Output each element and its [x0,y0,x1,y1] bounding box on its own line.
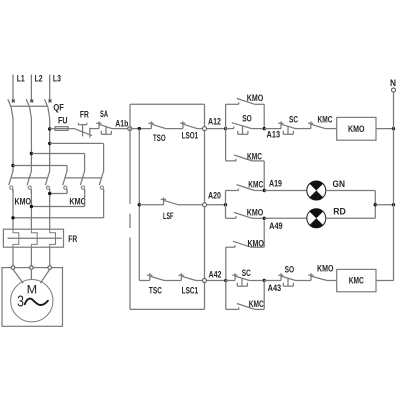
contactor KMC pole 2 [80,171,84,193]
KMC lamp label [248,179,263,189]
KMO self-hold label [247,93,264,103]
SO close label [285,264,295,274]
motor enclosure [2,268,63,327]
wire A20 right [207,204,226,206]
FR heater phase B [31,229,37,247]
node A19 [263,189,266,192]
wire LSO1 to A12 [197,128,202,130]
svg-text:A49: A49 [269,221,283,231]
wire coil KMC to N [376,280,394,282]
node A13 [263,127,266,130]
node junction A12 bus [224,127,227,130]
svg-text:KMC: KMC [249,299,264,309]
wire TSC to LSC1 [164,280,181,282]
svg-text:GN: GN [333,179,346,189]
svg-text:KMO: KMO [348,124,365,134]
wire KMO pole1 out [12,189,14,229]
svg-text:FU: FU [58,115,68,125]
FR heater phase A [13,229,19,247]
wire L3 to fuse [50,128,55,130]
SA label [100,109,108,119]
contactor KMO pole 2 [27,171,31,193]
wire N line [393,92,395,280]
button SO start-open [226,123,252,135]
SC label [289,114,298,124]
A12 label [208,117,221,127]
A13 label [267,130,281,140]
node L3 [50,74,61,101]
svg-text:KMC: KMC [69,197,86,207]
contactor KMC pole 3 [99,171,103,193]
wire KMC pole1 tie [50,189,67,193]
svg-text:SO: SO [285,264,295,274]
svg-text:LSF: LSF [163,211,174,221]
wire RD to join [326,217,376,219]
thermal relay FR box [3,229,63,247]
svg-text:L3: L3 [53,74,61,84]
N label [390,78,396,88]
node junction tie A [11,216,14,219]
wire KMO to A49 [252,217,262,219]
contactor KMO pole 1 [9,171,13,193]
motor terminal W [48,266,52,270]
TSC label [149,286,162,296]
svg-text:3: 3 [17,293,24,310]
svg-text:A42: A42 [209,269,222,279]
button SC stop-close [278,121,295,134]
node L1 [13,74,25,101]
GN label [333,179,346,189]
node junction L3 feed [48,142,51,145]
wire coil KMO to N [376,128,394,130]
svg-text:TSC: TSC [149,286,162,296]
fuse FU [55,127,68,131]
node junction coil-N [392,127,395,130]
KMO linkage bar [11,177,48,179]
KMO close label [247,238,264,248]
svg-text:FR: FR [68,234,77,244]
contact KMO NO lamp [226,212,253,218]
limit switch TSO [149,121,166,128]
node A1b [128,127,132,131]
TSO label [153,133,166,143]
svg-text:QF: QF [53,103,64,113]
KMO lamp label [247,207,264,217]
wire A43 to SO [264,280,281,282]
coil KMO [337,117,376,140]
QF linkage bar [10,105,48,107]
svg-text:KMO: KMO [247,93,264,103]
wire A42 right [207,280,226,282]
KMC close label [249,299,264,309]
KMC branch label [247,151,262,161]
wire KMO pole2 out [30,189,32,229]
A20 label [208,191,221,201]
contactor KMC pole 1 [63,171,67,193]
wire bus to LSF [139,204,163,206]
wire LSF to A20 [178,204,202,206]
node L2 [31,74,42,101]
motor terminal V [30,266,34,270]
lamp GN [307,181,326,200]
KMC label [69,197,86,207]
node A20 [203,203,207,207]
wire terminal U to motor [13,269,23,283]
wire L2 to KMC pole2 [31,154,84,172]
svg-text:RD: RD [333,207,346,217]
button SO stop-open [278,273,295,286]
wire to KMO aux top [226,103,239,105]
switch box right edge [204,104,206,309]
LSF label [163,211,174,221]
SO label [242,113,252,123]
wire open bus [225,104,227,161]
svg-text:L1: L1 [17,74,25,84]
switch box left edge [129,104,131,309]
node junction tie C [48,192,51,195]
node junction L1 feed [11,164,14,167]
svg-text:M: M [27,283,38,297]
node A43 [263,279,266,282]
svg-text:KMO: KMO [15,197,32,207]
svg-text:KMO: KMO [247,207,264,217]
node N terminal [392,88,396,92]
wire close bus [225,247,227,309]
wire A19 to GN lamp [264,190,307,192]
svg-text:FR: FR [80,110,89,120]
svg-text:TSO: TSO [153,133,166,143]
wire TSO to LSO1 [166,128,183,130]
A42 label [209,269,222,279]
svg-text:A43: A43 [268,283,282,293]
node junction A42 bus [224,279,227,282]
wire SA to A1b [112,128,128,130]
SC close label [242,268,251,278]
circuit breaker QF pole 1 [8,99,15,118]
wire FR to SA [90,128,99,130]
wire box inner bus [138,129,140,281]
contact KMO NO self-hold [237,98,255,104]
contact KMC NO close branch [226,304,255,310]
wire terminal V to motor [30,269,32,279]
node junction box mid [138,203,141,206]
LSO1 label [182,131,199,141]
motor M 3-phase [11,280,53,322]
wire A12 right [207,128,226,130]
svg-text:A1b: A1b [115,118,128,128]
node A12 [203,127,207,131]
svg-text:SC: SC [242,268,251,278]
QF label [53,103,64,113]
wire lamp bus [225,191,227,219]
wire L2 drop [30,119,32,172]
wire L3 to KMC pole3 [50,143,104,171]
node junction lamps-N [392,203,395,206]
wire GN to join [326,190,376,192]
coil KMC [337,269,376,291]
wire A1b to TSO [132,128,151,130]
limit switch LSF [161,197,178,204]
node A42 [203,279,207,283]
node junction L3-FU [48,127,51,130]
wire KMC NC to coil [325,128,336,130]
wire KMC to A19 [255,190,263,192]
svg-text:SA: SA [100,109,108,119]
FR NC contact [74,123,92,138]
svg-text:A12: A12 [208,117,221,127]
wire KMC branch to A19 [252,161,264,191]
svg-text:A20: A20 [208,191,221,201]
limit switch LSO1 [180,121,197,128]
wire KMC branch to A43 [255,281,264,310]
RD label [333,207,346,217]
contact KMC NO lamp [226,185,255,191]
node A49 [263,217,266,220]
svg-text:KMC: KMC [248,179,263,189]
svg-text:A13: A13 [267,130,281,140]
contact KMC NC interlock [308,121,325,128]
contact KMC interlock branch [226,155,252,161]
KMC NC label [318,114,333,124]
wire FR to motor C [49,247,51,266]
wire FR to motor B [30,247,32,266]
KMC linkage bar [65,177,102,179]
svg-text:KMC: KMC [247,151,262,161]
wire L1 to KMC pole1 [13,166,67,172]
A43 label [268,283,282,293]
wire KMC pole2 tie [31,189,84,206]
FU label [58,115,68,125]
LSC1 label [182,286,199,296]
FR heater phase C [50,229,56,247]
wire SO to A13 [252,128,262,130]
node junction box top [138,127,141,130]
wire fuse to FR contact [68,128,74,130]
node junction tie B [30,205,33,208]
svg-text:SC: SC [289,114,298,124]
lamp RD [307,209,326,228]
node junction L2 feed [30,152,33,155]
svg-text:N: N [390,78,396,88]
wire FR to motor A [12,247,14,266]
contact KMO NO close branch [226,241,251,247]
FR contact label [80,110,89,120]
svg-text:LSO1: LSO1 [182,131,199,141]
A1b label [115,118,128,128]
svg-text:LSC1: LSC1 [182,286,199,296]
wire SC to A43 [250,280,263,282]
svg-text:A19: A19 [269,179,282,189]
circuit breaker QF pole 2 [26,99,33,118]
svg-text:SO: SO [242,113,252,123]
svg-text:KMO: KMO [317,264,334,274]
FR label [68,234,77,244]
FR crossbar [8,237,63,239]
wire lamp join [374,191,376,219]
wire terminal W to motor [40,269,49,283]
svg-text:KMC: KMC [349,276,364,286]
KMO NC label [317,264,334,274]
svg-text:KMC: KMC [318,114,333,124]
A49 label [269,221,283,231]
contactor KMO pole 3 [45,171,49,193]
node junction A20 bus [224,203,227,206]
wire L1 drop [12,119,14,172]
wire KMO pole3 out [49,189,51,229]
wire KMC pole3 tie [13,189,104,218]
limit switch LSC1 [179,273,196,280]
wire SC to KMC NC [296,128,311,130]
node junction lamps [374,203,377,206]
wire LSC1 to A42 [196,280,203,282]
limit switch TSC [147,273,164,280]
wire KMO branch to A49 [251,220,264,247]
KMO label [15,197,32,207]
wire bus to TSC [139,280,150,282]
motor terminal U [11,266,15,270]
wire lamps to N [375,204,393,206]
circuit breaker QF pole 3 [45,99,52,118]
wire A13 to SC [264,128,281,130]
A19 label [269,179,282,189]
wire A49 to RD lamp [264,217,307,219]
button SC start-close [226,273,250,286]
contact KMO NC interlock [308,273,327,280]
switch box bottom edge [130,308,205,310]
wire KMO aux to A13 bus [255,104,265,128]
switch SA [96,121,112,134]
switch box top edge [130,103,205,105]
wire L3 drop [49,119,51,172]
svg-text:L2: L2 [35,74,43,84]
wire KMO NC to coil [327,280,337,282]
wire SO to KMO NC [296,280,312,282]
